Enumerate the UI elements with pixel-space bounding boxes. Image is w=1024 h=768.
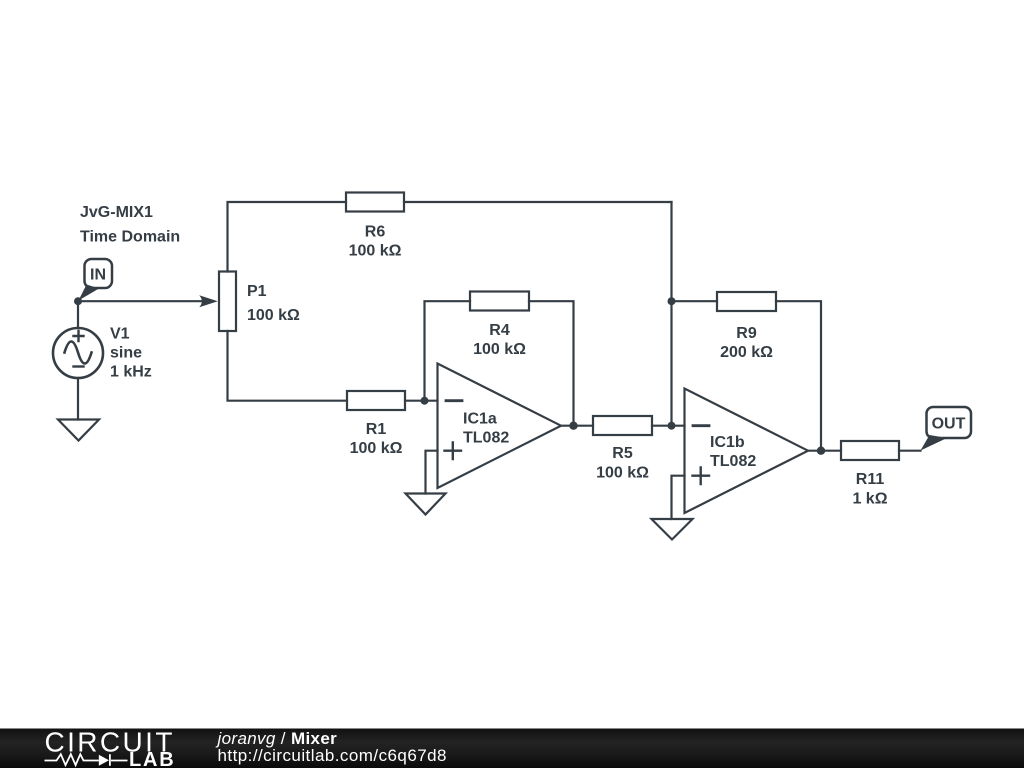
svg-text:R9: R9 <box>736 325 757 342</box>
svg-text:R4: R4 <box>489 322 510 339</box>
svg-text:IC1b: IC1b <box>710 434 745 451</box>
svg-text:100 kΩ: 100 kΩ <box>596 465 649 482</box>
svg-text:V1: V1 <box>110 326 130 343</box>
svg-text:100 kΩ: 100 kΩ <box>247 307 300 324</box>
svg-text:IN: IN <box>90 267 106 284</box>
svg-text:200 kΩ: 200 kΩ <box>720 344 773 361</box>
svg-text:R6: R6 <box>365 224 386 241</box>
svg-text:R1: R1 <box>366 421 387 438</box>
svg-text:LAB: LAB <box>129 749 176 768</box>
svg-text:100 kΩ: 100 kΩ <box>350 440 403 457</box>
svg-text:R5: R5 <box>612 445 633 462</box>
svg-text:IC1a: IC1a <box>463 411 497 428</box>
svg-text:100 kΩ: 100 kΩ <box>473 341 526 358</box>
svg-text:1 kΩ: 1 kΩ <box>852 491 887 508</box>
svg-text:P1: P1 <box>247 283 267 300</box>
svg-text:sine: sine <box>110 345 142 362</box>
svg-text:TL082: TL082 <box>710 453 756 470</box>
svg-text:100 kΩ: 100 kΩ <box>349 243 402 260</box>
svg-text:R11: R11 <box>856 471 885 488</box>
svg-text:TL082: TL082 <box>463 430 509 447</box>
svg-text:1 kHz: 1 kHz <box>110 364 152 381</box>
svg-text:Time Domain: Time Domain <box>80 229 180 246</box>
svg-text:OUT: OUT <box>932 416 966 433</box>
svg-text:http://circuitlab.com/c6q67d8: http://circuitlab.com/c6q67d8 <box>218 746 447 765</box>
svg-text:JvG-MIX1: JvG-MIX1 <box>80 204 153 221</box>
